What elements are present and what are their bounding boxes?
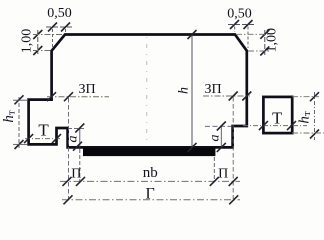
panel cross-section outline — [29, 35, 247, 148]
svg-text:ЗП: ЗП — [204, 82, 221, 97]
dimension 1,00 right: line — [264, 30, 266, 55]
dimension h_t left: tick bottom — [15, 140, 24, 149]
dimension 1,00 left: line — [37, 30, 39, 54]
dimension a right: extension top — [205, 125, 232, 127]
G tick left — [64, 195, 73, 204]
dimension a right: line — [220, 126, 222, 147]
svg-text:П: П — [71, 166, 81, 181]
dimension ZP right: line — [203, 95, 250, 97]
dimension ZP left: tick 1 — [47, 92, 56, 101]
svg-text:nb: nb — [143, 165, 158, 181]
svg-text:a: a — [65, 136, 80, 143]
svg-text:П: П — [218, 167, 228, 182]
dimension h: tick top — [188, 30, 197, 39]
detached rib mid line tick 1 — [259, 121, 268, 130]
dimension 0,50 right: line — [228, 24, 255, 26]
detached rib detail rectangle — [263, 97, 292, 133]
dimension 0,50 left: line — [46, 26, 73, 28]
detached rib mid dash-dot line — [243, 125, 307, 127]
dimension ZP left: tick 2 — [64, 92, 73, 101]
axis line right (vertical dash-dot) — [232, 97, 234, 199]
P-nb-P tick 3 — [210, 177, 219, 186]
dimension ZP left: line — [47, 96, 109, 98]
svg-text:Т: Т — [38, 121, 49, 140]
dimension h_t left: extension top — [13, 99, 28, 101]
dimension 0,50 right: extension line b — [247, 27, 249, 49]
dimension 0,50 right: extension line a — [234, 27, 236, 33]
dimension 1,00 right: tick bottom — [260, 47, 269, 56]
dimension 1,00 left: extension line bottom — [33, 50, 51, 52]
rib T left mid dash-dot line — [25, 138, 60, 140]
P-nb-P tick 2 — [76, 177, 85, 186]
P-nb-P tick 4 — [229, 177, 238, 186]
dimension ZP right: tick 1 — [229, 92, 238, 101]
dimension line G — [62, 199, 240, 201]
dimension h_t right: tick bottom — [310, 130, 319, 139]
P-nb-P tick 1 — [63, 177, 72, 186]
extension line from bar right end — [213, 157, 215, 182]
dimension h_t right: extension top — [292, 96, 319, 98]
svg-text:a: a — [207, 135, 222, 142]
axis line left (vertical dash-dot) — [68, 98, 70, 200]
dimension h: tick bottom — [188, 143, 197, 152]
dimension h_t right: line — [314, 92, 316, 140]
svg-text:Т: Т — [272, 109, 282, 128]
dimension 0,50 left: tick 1 — [48, 23, 57, 32]
detached rib mid line tick 2 — [287, 121, 296, 130]
extension line from bar left end — [79, 149, 81, 182]
dimension a left: extension top — [68, 127, 84, 129]
dimension 1,00 left: extension line top — [33, 34, 64, 36]
bearing strip bar nb — [83, 148, 215, 156]
dimension 0,50 right: tick 1 — [230, 20, 239, 29]
dimension 1,00 right: tick top — [260, 30, 269, 39]
rib T left mid line tick 1 — [24, 134, 33, 143]
dimension 1,00 right: extension line top — [236, 33, 270, 35]
dimension h_t right: extension bottom — [292, 132, 324, 134]
dimension a right: tick bottom — [217, 143, 226, 152]
dimension a left: tick bottom — [73, 142, 82, 151]
dimension a left: line — [79, 128, 81, 147]
dimension 0,50 left: extension line b — [65, 29, 67, 33]
dimension line P-nb-P — [60, 180, 240, 182]
dimension 0,50 right: tick 2 — [244, 20, 253, 29]
dimension 1,00 left: tick bottom — [33, 46, 42, 55]
dimension 0,50 left: tick 2 — [61, 23, 70, 32]
svg-text:h: h — [177, 87, 192, 94]
dimension a right: tick top — [217, 122, 226, 131]
dimension h_t left: line — [18, 97, 20, 148]
dimension h_t left: tick top — [15, 95, 24, 104]
svg-text:1,00: 1,00 — [20, 29, 35, 54]
dimension 0,50 left: extension line a — [52, 29, 54, 49]
dimension 1,00 left: tick top — [33, 30, 42, 39]
dimension a left: tick top — [75, 124, 84, 133]
svg-text:Г: Г — [145, 186, 154, 203]
panel center axis (faint) — [146, 37, 148, 146]
svg-text:1,00: 1,00 — [264, 28, 279, 53]
svg-text:ЗП: ЗП — [78, 82, 95, 97]
svg-text:0,50: 0,50 — [47, 6, 72, 21]
dimension 1,00 right: extension line bottom — [248, 50, 270, 52]
dimension h: line — [191, 35, 193, 148]
rib T left mid line tick 2 — [52, 134, 61, 143]
dimension ZP right: tick 2 — [242, 92, 251, 101]
G tick right — [229, 195, 238, 204]
dimension h_t right: tick top — [310, 92, 319, 101]
dimension h_t left: extension bottom — [13, 143, 28, 145]
svg-text:0,50: 0,50 — [227, 7, 252, 22]
